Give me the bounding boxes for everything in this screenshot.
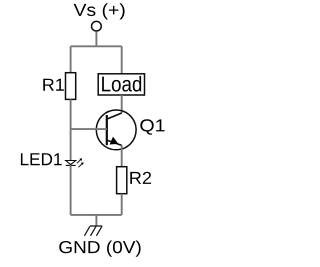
net label Vs (+) bbox=[74, 3, 125, 19]
wire ground stem bbox=[95, 215, 97, 226]
ground bbox=[84, 226, 102, 236]
wire left drop to R1 bbox=[70, 46, 72, 72]
label R2 bbox=[130, 172, 151, 184]
terminal Vs bbox=[92, 21, 102, 31]
wire Load to collector bbox=[121, 95, 123, 113]
wire base bbox=[71, 128, 107, 130]
resistor R2 bbox=[117, 167, 127, 194]
wire bottom rail bbox=[71, 214, 122, 216]
wire top rail bbox=[71, 45, 122, 47]
wire Vs stem bbox=[95, 32, 97, 47]
wire right drop to Load bbox=[121, 46, 123, 74]
label Q1 bbox=[140, 119, 164, 134]
load box Load bbox=[98, 74, 144, 95]
label R1 bbox=[43, 79, 64, 91]
wire emitter to R2 bbox=[121, 145, 123, 166]
wire R1 to LED bbox=[70, 99, 72, 160]
resistor R1 bbox=[66, 73, 76, 100]
wire R2 to bottom rail bbox=[121, 194, 123, 215]
wire LED to bottom rail bbox=[70, 165, 72, 215]
label Load bbox=[102, 76, 141, 92]
net label GND (0V) bbox=[59, 240, 140, 256]
transistor Q1 bbox=[96, 110, 136, 150]
label LED1 bbox=[21, 153, 62, 165]
LED LED1 bbox=[66, 158, 84, 167]
